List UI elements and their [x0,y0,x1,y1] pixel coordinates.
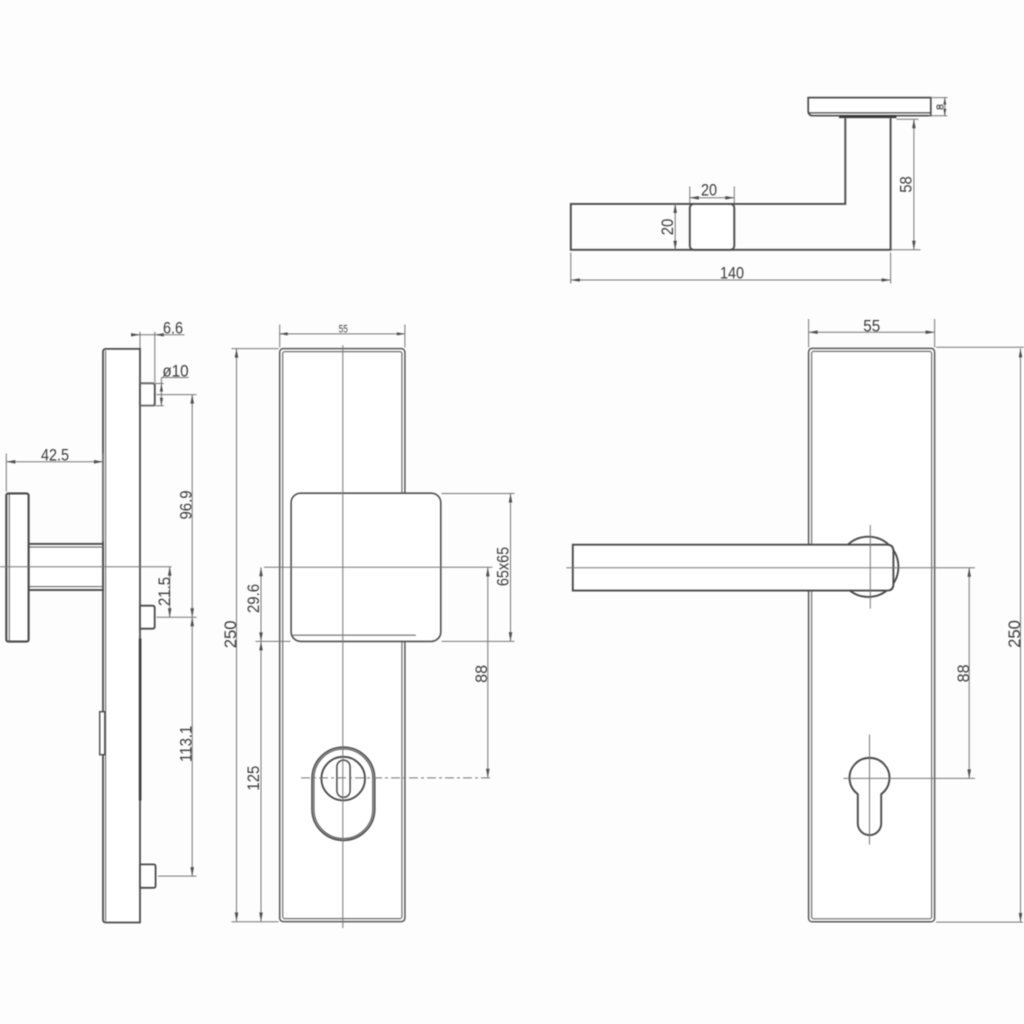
top view: square spindle hub [690,204,735,250]
svg-text:20: 20 [659,219,677,236]
svg-text:113.1: 113.1 [178,726,196,762]
dimension 20 (hub width) extension lines [689,187,691,204]
svg-text:55: 55 [863,317,880,336]
dimension 113.1 line [191,617,193,876]
svg-text:29.6: 29.6 [245,584,263,613]
pin center extension lines [157,394,197,396]
dimension 58 extension lines [897,118,919,120]
middle view: cylinder circle [321,757,365,801]
dimension 140 extension lines [570,253,572,284]
right view: backplate front [809,348,935,921]
dimension 6.6 line and arrows [131,334,185,336]
top view: rose plate (side) [808,98,931,116]
middle view: vertical centerline [342,345,344,928]
dimension ø10 leader and line [161,377,189,379]
dimension 8 extension lines [932,97,948,99]
svg-text:42.5: 42.5 [41,447,69,465]
left view: handle axis centerline [0,566,172,568]
top view: neck flange [839,115,897,118]
svg-text:58: 58 [898,176,916,193]
svg-text:20: 20 [701,181,717,199]
dimension 20 (hub width) line [690,197,735,199]
svg-text:88: 88 [472,665,491,683]
svg-text:55: 55 [339,324,348,336]
right view: euro profile keyhole [850,758,890,835]
middle view: keyway slot [337,760,350,797]
left view: top fixing pin [140,383,155,405]
left view: middle fixing pin [140,606,155,629]
dimension 55 (middle) extension lines [279,325,281,348]
dimension 250 (middle) line [236,349,238,922]
top view: lever outline (grip bar + neck) [571,118,891,250]
middle view: backplate front [280,349,405,922]
left view: knob stem [29,544,103,590]
svg-text:ø10: ø10 [162,362,188,381]
right view: lever rose circle [838,537,898,597]
left view: cylinder rosette edge (thick segment) [139,639,142,801]
knob extension lines [256,640,291,642]
dimension 6.6 extension lines [139,332,141,348]
dimension 250 (right) extension lines [936,346,1024,348]
svg-text:125: 125 [245,766,263,791]
svg-text:96.9: 96.9 [178,490,196,519]
dimension 29.6 line [260,567,262,641]
dimension 42.5 line [6,461,103,463]
svg-text:88: 88 [954,664,973,682]
svg-text:6.6: 6.6 [163,319,183,337]
svg-text:250: 250 [1005,620,1024,648]
svg-text:250: 250 [221,621,240,649]
dimension 250 (middle) extension lines [232,348,279,350]
middle view: oval security rosette [312,747,375,840]
dimension 125 line [260,641,262,921]
dimension 21.5 line [169,567,171,618]
dimension 250 (right) line [1020,348,1022,922]
dimension 58 line [913,119,915,250]
dimension 8 text (drawn as glyph) [937,105,940,109]
dimension 55 (right) line [809,331,935,333]
middle view: square knob 65x65 [291,493,441,641]
middle view: cylinder centerline (dashed) [301,777,492,779]
svg-text:140: 140 [720,265,744,283]
left view: knob disc (side) [6,493,28,641]
dimension 140 line [571,279,891,281]
svg-text:21.5: 21.5 [156,577,174,606]
dimension 20 (bar height) line [674,204,676,250]
left view: backplate (side) [103,349,140,923]
dimension 88 (middle) line [487,567,489,777]
middle view: knob bottom bevel line [292,634,416,636]
dimension 88 (right) line [968,568,970,779]
dimension 42.5 extension lines [5,454,7,492]
dimension 96.9 line [191,395,193,618]
right view: rose vertical centerline [869,525,871,609]
right view: handle axis centerline [566,567,975,569]
right view: keyhole vertical centerline [869,735,871,845]
dimension 8 line [944,98,946,116]
middle view: horizontal axis centerline [264,566,492,568]
dimension 65x65 line [510,494,512,642]
left view: bottom fixing pin [140,864,156,887]
right view: keyhole horizontal centerline [844,777,976,779]
dimension 55 (middle) line [280,333,405,335]
left view: cylinder protrusion (door side) [100,712,105,755]
right view: lever grip bar [573,545,894,591]
svg-text:65x65: 65x65 [494,547,512,587]
dimension 55 (right) extension lines [808,319,810,347]
